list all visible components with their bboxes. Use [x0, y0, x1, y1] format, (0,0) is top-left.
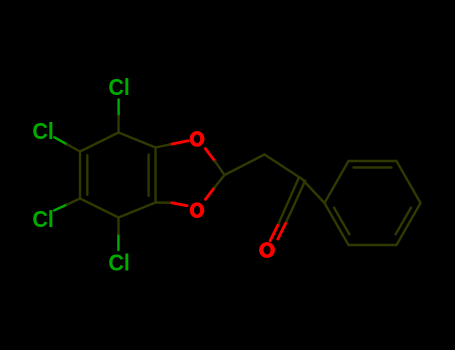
label O3 dioxole bottom	[190, 202, 205, 218]
wire C6-C7 (lower-left to bottom)	[80, 199, 119, 218]
bond C3a to O1 (carbon half)	[156, 144, 173, 147]
bond C5 to Cl (chlorine half)	[54, 137, 67, 144]
bond C7 to Cl (chlorine half)	[117, 234, 119, 250]
bond C4 to Cl (chlorine half)	[117, 100, 119, 117]
bond C3a to O1 (oxygen half)	[172, 141, 188, 144]
svg-text:Cl: Cl	[108, 250, 129, 276]
wire top edge double bond	[349, 160, 397, 162]
bond C2 to CH2	[225, 155, 265, 176]
bond O3 to C2 (oxygen half)	[206, 188, 215, 200]
wire C7-C7a double bond (bottom to lower-right)	[119, 203, 156, 218]
bond CH2 to carbonyl C	[265, 155, 303, 180]
bond C4 to Cl (carbon half)	[117, 116, 119, 133]
benzene ring C4-C7a	[80, 133, 156, 218]
bond C7a to O3 (carbon half)	[156, 201, 172, 204]
bond C7 to Cl (carbon half)	[117, 218, 119, 234]
bond O1 to C2 (oxygen half)	[205, 149, 215, 162]
svg-text:Cl: Cl	[108, 74, 129, 100]
wire C7a-C3a (fused right edge)	[154, 148, 156, 203]
ketone C=O double bond line 1 (oxygen half)	[270, 225, 278, 240]
wire right to bottom-right double bond	[397, 203, 421, 245]
wire C5-C6 double bond (left edge)	[79, 152, 81, 199]
wire C3a-C4 double bond (upper-right to top)	[119, 133, 156, 148]
ketone C=O double bond line 2 (oxygen half)	[278, 223, 286, 239]
wire bottom-left to ipso double bond	[325, 203, 349, 245]
label O1 dioxole top	[190, 131, 205, 147]
ketone C=O double bond line 1 (carbon half)	[278, 178, 299, 226]
bond carbonyl C to phenyl ipso	[302, 179, 325, 203]
bond C6 to Cl (chlorine half)	[54, 205, 67, 211]
svg-text:Cl: Cl	[32, 206, 54, 232]
wire ipso to top-left	[325, 161, 349, 203]
wire top-right to right	[397, 161, 421, 203]
bond C7a to O3 (oxygen half)	[172, 203, 187, 206]
ketone C=O double bond line 2 (carbon half)	[286, 181, 306, 224]
label O ketone	[259, 242, 275, 258]
bond C6 to Cl (carbon half)	[67, 199, 80, 205]
svg-text:Cl: Cl	[32, 118, 54, 144]
bond O1 to C2 (carbon half)	[215, 161, 225, 175]
bond O3 to C2 (carbon half)	[215, 175, 225, 188]
wire C4-C5 (top to upper-left)	[80, 133, 119, 152]
phenyl ring	[325, 161, 421, 245]
bond C5 to Cl (carbon half)	[67, 144, 80, 151]
wire bottom edge	[349, 244, 397, 246]
